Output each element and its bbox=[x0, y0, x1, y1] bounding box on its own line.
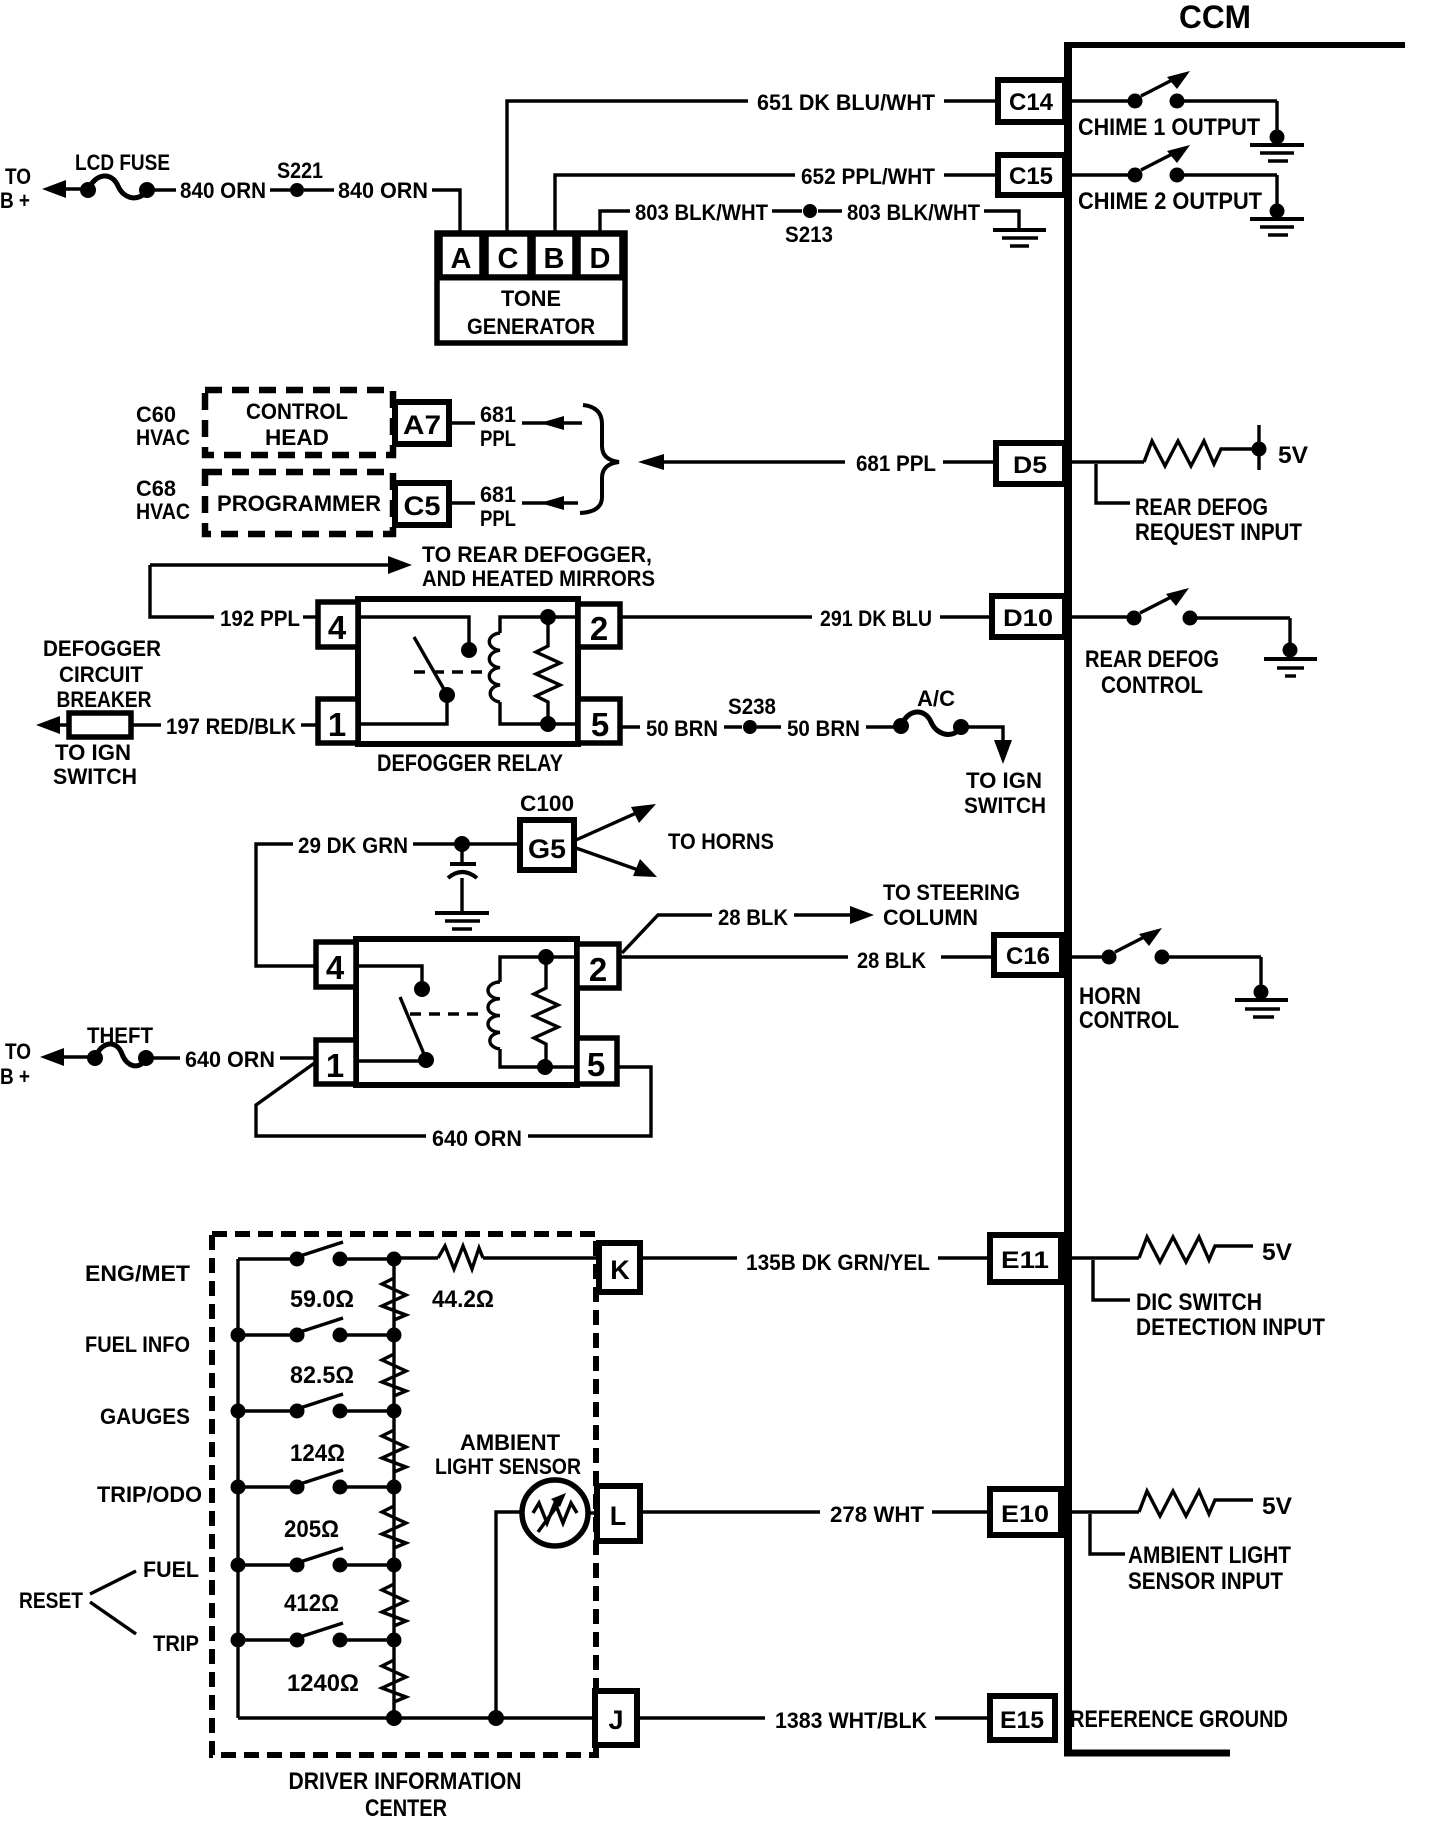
svg-text:DIC SWITCH: DIC SWITCH bbox=[1136, 1289, 1262, 1316]
svg-text:LIGHT SENSOR: LIGHT SENSOR bbox=[435, 1454, 581, 1479]
svg-text:C14: C14 bbox=[1009, 89, 1054, 116]
svg-text:RESET: RESET bbox=[19, 1588, 83, 1613]
svg-text:C15: C15 bbox=[1009, 163, 1053, 190]
svg-text:DETECTION INPUT: DETECTION INPUT bbox=[1136, 1314, 1325, 1341]
node (capacitor tap) bbox=[454, 836, 470, 852]
svg-text:840 ORN: 840 ORN bbox=[180, 178, 266, 203]
svg-text:59.0Ω: 59.0Ω bbox=[290, 1286, 354, 1313]
svg-text:FUEL INFO: FUEL INFO bbox=[85, 1332, 190, 1357]
wire 197 RED/BLK (breaker to relay pin 1) bbox=[131, 714, 318, 739]
svg-text:1383 WHT/BLK: 1383 WHT/BLK bbox=[775, 1708, 927, 1733]
switch TRIP bbox=[231, 1623, 395, 1648]
svg-text:AMBIENT: AMBIENT bbox=[460, 1430, 561, 1455]
svg-text:C16: C16 bbox=[1006, 943, 1050, 970]
switch ENG/MET bbox=[238, 1242, 387, 1267]
relay K2 contact (pin 4 arm) bbox=[356, 966, 434, 1068]
svg-text:5: 5 bbox=[587, 1046, 605, 1083]
svg-text:50 BRN: 50 BRN bbox=[646, 716, 718, 741]
relay K2 actuation dashed link bbox=[410, 1012, 484, 1015]
svg-text:TRIP: TRIP bbox=[153, 1631, 199, 1656]
pin A7 (control head) bbox=[395, 402, 449, 444]
svg-text:291 DK BLU: 291 DK BLU bbox=[820, 606, 932, 631]
node (relay K1 coil top) bbox=[540, 609, 556, 625]
node (chain row 1) bbox=[387, 1252, 402, 1267]
svg-text:DRIVER INFORMATION: DRIVER INFORMATION bbox=[289, 1768, 522, 1795]
connector E15 bbox=[990, 1696, 1055, 1740]
svg-text:AND HEATED MIRRORS: AND HEATED MIRRORS bbox=[422, 566, 655, 591]
relay K2 coil bbox=[488, 957, 577, 1067]
svg-text:FUEL: FUEL bbox=[143, 1557, 199, 1582]
svg-text:681: 681 bbox=[480, 482, 516, 507]
svg-text:TONE: TONE bbox=[501, 286, 561, 311]
brace (681 PPL splice) bbox=[580, 405, 619, 513]
module CCM outline bbox=[1064, 42, 1405, 1753]
svg-text:D10: D10 bbox=[1003, 605, 1053, 632]
capacitor C1 bbox=[448, 844, 477, 911]
wire 28 BLK (branch to steering column) bbox=[622, 880, 1020, 953]
switch GAUGES bbox=[231, 1394, 395, 1419]
svg-text:CONTROL: CONTROL bbox=[1101, 672, 1203, 699]
relay K1 coil bbox=[489, 617, 578, 724]
pin 2 (horn relay) bbox=[577, 944, 619, 988]
wire bus (DIC switch common) bbox=[236, 1259, 239, 1718]
node (chain row 5) bbox=[387, 1558, 402, 1573]
svg-text:E10: E10 bbox=[1001, 1501, 1049, 1528]
resistor 59.0 ohm bbox=[290, 1278, 406, 1320]
svg-text:ENG/MET: ENG/MET bbox=[85, 1261, 191, 1286]
svg-text:TO STEERING: TO STEERING bbox=[883, 880, 1020, 905]
resistor 205 ohm bbox=[284, 1506, 406, 1548]
svg-text:28 BLK: 28 BLK bbox=[718, 905, 788, 930]
svg-text:SENSOR INPUT: SENSOR INPUT bbox=[1128, 1568, 1283, 1595]
wire 135B DK GRN/YEL (K to E11) bbox=[640, 1250, 990, 1275]
svg-text:D5: D5 bbox=[1013, 452, 1047, 479]
connector C15 bbox=[998, 155, 1065, 195]
tone generator U1 bbox=[437, 233, 625, 343]
pin D (tone generator) bbox=[578, 234, 622, 277]
svg-text:DEFOGGER: DEFOGGER bbox=[43, 636, 161, 661]
svg-text:AMBIENT LIGHT: AMBIENT LIGHT bbox=[1128, 1542, 1291, 1569]
label TO IGN SWITCH (breaker) bbox=[53, 740, 137, 789]
svg-text:135B DK GRN/YEL: 135B DK GRN/YEL bbox=[746, 1250, 930, 1275]
svg-text:A/C: A/C bbox=[917, 686, 955, 711]
module PROGRAMMER (dashed) bbox=[205, 472, 393, 534]
svg-text:A7: A7 bbox=[403, 410, 441, 440]
svg-text:640 ORN: 640 ORN bbox=[185, 1047, 275, 1072]
svg-text:205Ω: 205Ω bbox=[284, 1516, 339, 1543]
svg-text:CHIME 2 OUTPUT: CHIME 2 OUTPUT bbox=[1078, 188, 1262, 215]
pin 2 (defogger relay) bbox=[578, 604, 620, 647]
switch REAR DEFOG CONTROL bbox=[1065, 588, 1290, 645]
svg-text:B: B bbox=[544, 243, 565, 275]
wire 840 ORN (S221 to tone generator pin A) bbox=[304, 178, 460, 231]
svg-text:REQUEST INPUT: REQUEST INPUT bbox=[1135, 519, 1302, 546]
svg-text:S213: S213 bbox=[785, 222, 833, 247]
resistor (rear defog request pull-up) bbox=[1068, 441, 1254, 466]
svg-text:A: A bbox=[451, 243, 472, 275]
node (chain to rail) bbox=[386, 1710, 402, 1726]
resistor 82.5 ohm bbox=[290, 1354, 406, 1396]
pin G5 (C100) bbox=[520, 820, 574, 870]
wire 681 PPL (A7) bbox=[449, 402, 582, 451]
svg-text:GENERATOR: GENERATOR bbox=[467, 314, 595, 339]
svg-text:GAUGES: GAUGES bbox=[100, 1404, 190, 1429]
svg-text:S221: S221 bbox=[277, 158, 323, 183]
wire 50 BRN (S238 to A/C fuse) bbox=[757, 716, 895, 741]
label DEFOGGER CIRCUIT BREAKER bbox=[43, 636, 161, 712]
node TO B+ (theft fuse feed) bbox=[0, 1039, 92, 1089]
svg-text:2: 2 bbox=[590, 610, 608, 647]
svg-text:5V: 5V bbox=[1262, 1493, 1292, 1520]
pin 5 (defogger relay) bbox=[578, 699, 620, 743]
node (relay K2 coil top) bbox=[538, 949, 554, 965]
ground (chime 2) bbox=[1250, 204, 1304, 236]
relay K1 DEFOGGER RELAY body bbox=[358, 599, 578, 777]
svg-text:640 ORN: 640 ORN bbox=[432, 1126, 522, 1151]
pin K (DIC) bbox=[599, 1243, 640, 1292]
svg-text:840 ORN: 840 ORN bbox=[338, 178, 428, 203]
wire 29 DK GRN (to C100 G5) bbox=[256, 833, 517, 966]
svg-text:1: 1 bbox=[328, 706, 346, 743]
svg-text:C68: C68 bbox=[136, 476, 176, 501]
svg-text:CONTROL: CONTROL bbox=[1079, 1007, 1179, 1034]
svg-text:REAR DEFOG: REAR DEFOG bbox=[1085, 646, 1219, 673]
svg-text:5V: 5V bbox=[1278, 442, 1308, 469]
svg-text:HORN: HORN bbox=[1079, 983, 1141, 1010]
pin C (tone generator) bbox=[486, 234, 530, 277]
switch CHIME 2 OUTPUT bbox=[1065, 145, 1277, 207]
resistor 44.2 ohm bbox=[401, 1246, 599, 1313]
connector C14 bbox=[998, 80, 1065, 122]
connector D10 bbox=[992, 596, 1065, 637]
svg-text:K: K bbox=[610, 1255, 630, 1285]
svg-text:DEFOGGER RELAY: DEFOGGER RELAY bbox=[377, 750, 563, 777]
label DIC SWITCH DETECTION INPUT bbox=[1093, 1260, 1325, 1341]
connector E10 bbox=[990, 1489, 1061, 1535]
svg-text:4: 4 bbox=[328, 609, 347, 646]
svg-text:CONTROL: CONTROL bbox=[246, 399, 348, 424]
wire 652 PPL/WHT (pin B to C15) bbox=[555, 164, 998, 233]
pin 1 (defogger relay) bbox=[318, 699, 358, 743]
pin C5 (programmer) bbox=[395, 483, 449, 525]
wire chain (DIC resistor ladder) bbox=[392, 1259, 395, 1718]
node (chain row 6) bbox=[387, 1633, 402, 1648]
fuse THEFT bbox=[87, 1023, 154, 1066]
svg-text:1240Ω: 1240Ω bbox=[287, 1670, 359, 1697]
svg-text:TO HORNS: TO HORNS bbox=[668, 829, 774, 854]
label REAR DEFOG CONTROL bbox=[1085, 646, 1219, 699]
svg-text:CIRCUIT: CIRCUIT bbox=[59, 662, 144, 687]
svg-text:PROGRAMMER: PROGRAMMER bbox=[217, 491, 381, 516]
wire 681 PPL (D5 to brace) bbox=[638, 451, 996, 476]
node (chain row 4) bbox=[387, 1480, 402, 1495]
svg-text:SWITCH: SWITCH bbox=[964, 793, 1046, 818]
pin J (DIC) bbox=[595, 1691, 637, 1745]
wire 50 BRN (relay pin 5 to S238) bbox=[620, 716, 742, 741]
switch HORN CONTROL bbox=[1062, 928, 1261, 988]
wire 192 PPL (to defogger relay pin 4) bbox=[150, 565, 318, 631]
ground (803 BLK/WHT) bbox=[993, 230, 1046, 246]
svg-text:C60: C60 bbox=[136, 402, 176, 427]
svg-text:HVAC: HVAC bbox=[136, 425, 190, 450]
svg-text:82.5Ω: 82.5Ω bbox=[290, 1362, 354, 1389]
svg-text:50 BRN: 50 BRN bbox=[787, 716, 860, 741]
node (relay K2 coil bottom) bbox=[537, 1059, 553, 1075]
svg-text:PPL: PPL bbox=[480, 426, 516, 451]
connector C16 bbox=[994, 935, 1062, 975]
pin A (tone generator) bbox=[440, 234, 482, 277]
switch TRIP/ODO bbox=[231, 1470, 395, 1495]
svg-text:SWITCH: SWITCH bbox=[53, 764, 137, 789]
svg-text:TRIP/ODO: TRIP/ODO bbox=[97, 1482, 202, 1507]
svg-text:5: 5 bbox=[591, 706, 609, 743]
svg-text:LCD FUSE: LCD FUSE bbox=[75, 150, 170, 175]
svg-text:CENTER: CENTER bbox=[365, 1795, 447, 1822]
splice S238 bbox=[728, 694, 776, 734]
module DRIVER INFORMATION CENTER (dashed) bbox=[212, 1234, 596, 1822]
pin 5 (horn relay) bbox=[577, 1038, 617, 1084]
svg-text:S238: S238 bbox=[728, 694, 776, 719]
svg-text:J: J bbox=[608, 1705, 623, 1735]
pin 4 (defogger relay) bbox=[318, 602, 358, 647]
svg-text:CCM: CCM bbox=[1179, 0, 1251, 35]
relay K1 contact (pin 4 arm) bbox=[358, 617, 477, 724]
svg-text:G5: G5 bbox=[528, 834, 566, 864]
svg-text:412Ω: 412Ω bbox=[284, 1590, 339, 1617]
svg-text:803 BLK/WHT: 803 BLK/WHT bbox=[847, 200, 981, 225]
svg-text:2: 2 bbox=[589, 951, 607, 988]
node 5V (rear defog request) bbox=[1252, 425, 1309, 470]
switch FUEL INFO bbox=[231, 1318, 395, 1343]
label HORN CONTROL bbox=[1079, 983, 1179, 1034]
resistor 412 ohm bbox=[284, 1584, 406, 1626]
svg-text:4: 4 bbox=[326, 949, 345, 986]
circuit breaker CB1 bbox=[36, 713, 131, 737]
connector E11 bbox=[990, 1235, 1061, 1282]
wire 803 BLK/WHT (S213 to ground) bbox=[818, 200, 1019, 228]
wire to ign switch (A/C fuse) bbox=[964, 727, 1046, 818]
svg-text:681 PPL: 681 PPL bbox=[856, 451, 936, 476]
resistor 124 ohm bbox=[290, 1430, 406, 1472]
wire 1383 WHT/BLK (J to E15) bbox=[637, 1708, 990, 1733]
svg-text:TO REAR DEFOGGER,: TO REAR DEFOGGER, bbox=[422, 542, 652, 567]
resistor (DIC switch pull-up) bbox=[1064, 1237, 1253, 1262]
svg-text:29 DK GRN: 29 DK GRN bbox=[298, 833, 408, 858]
wire 840 ORN (fuse to S221) bbox=[153, 178, 290, 203]
label REAR DEFOG REQUEST INPUT bbox=[1096, 464, 1302, 546]
pin B (tone generator) bbox=[533, 234, 575, 277]
wire 28 BLK (relay pin 2 to C16) bbox=[619, 948, 994, 973]
svg-text:BREAKER: BREAKER bbox=[57, 687, 152, 712]
svg-text:C100: C100 bbox=[520, 791, 574, 816]
svg-text:HVAC: HVAC bbox=[136, 499, 190, 524]
ground (chime 1) bbox=[1250, 130, 1304, 162]
pin 4 (horn relay) bbox=[316, 942, 356, 987]
svg-text:HEAD: HEAD bbox=[265, 425, 329, 450]
resistor (relay K2 internal) bbox=[534, 957, 558, 1067]
svg-text:192 PPL: 192 PPL bbox=[220, 606, 300, 631]
svg-text:REFERENCE GROUND: REFERENCE GROUND bbox=[1070, 1706, 1288, 1733]
node (relay K1 coil bottom) bbox=[540, 716, 556, 732]
svg-text:CHIME 1 OUTPUT: CHIME 1 OUTPUT bbox=[1078, 114, 1260, 141]
svg-text:TO: TO bbox=[5, 1039, 31, 1064]
connector C60 HVAC label bbox=[136, 402, 190, 450]
wire bottom rail (DIC common return) bbox=[238, 1716, 595, 1719]
wire 803 BLK/WHT (pin D to S213) bbox=[600, 200, 802, 233]
wire TO HORNS arrows bbox=[576, 804, 774, 877]
label RESET with pointer lines bbox=[19, 1571, 136, 1634]
svg-text:5V: 5V bbox=[1262, 1239, 1292, 1266]
svg-text:124Ω: 124Ω bbox=[290, 1440, 345, 1467]
node (sensor to rail) bbox=[488, 1710, 504, 1726]
svg-text:44.2Ω: 44.2Ω bbox=[432, 1286, 494, 1313]
svg-text:COLUMN: COLUMN bbox=[883, 905, 978, 930]
ground (horn control) bbox=[1235, 985, 1288, 1018]
pin L (DIC) bbox=[597, 1486, 640, 1541]
svg-text:E15: E15 bbox=[1000, 1707, 1044, 1734]
node (chain row 2) bbox=[387, 1328, 402, 1343]
svg-text:803 BLK/WHT: 803 BLK/WHT bbox=[635, 200, 769, 225]
relay K1 actuation dashed link bbox=[414, 670, 488, 673]
wire 640 ORN (theft fuse to relay pin 1) bbox=[152, 1047, 316, 1072]
relay K2 (horn relay) body bbox=[356, 939, 577, 1085]
svg-text:D: D bbox=[590, 243, 611, 275]
svg-text:B +: B + bbox=[0, 1064, 30, 1089]
svg-text:L: L bbox=[610, 1501, 627, 1531]
svg-text:197 RED/BLK: 197 RED/BLK bbox=[166, 714, 296, 739]
fuse LCD FUSE bbox=[75, 150, 170, 198]
svg-text:C: C bbox=[498, 243, 519, 275]
fuse A/C bbox=[893, 686, 969, 735]
svg-text:TO IGN: TO IGN bbox=[966, 768, 1042, 793]
wire 640 ORN loop (pin 1 to pin 5) bbox=[256, 1062, 651, 1151]
ground (capacitor) bbox=[435, 913, 489, 929]
splice S213 bbox=[785, 204, 833, 247]
svg-text:1: 1 bbox=[326, 1047, 344, 1084]
wire 291 DK BLU (relay pin 2 to D10) bbox=[620, 606, 992, 631]
label AMBIENT LIGHT SENSOR bbox=[435, 1430, 581, 1479]
pin 1 (horn relay) bbox=[316, 1040, 356, 1084]
resistor (ambient light pull-up) bbox=[1064, 1491, 1253, 1516]
wire 681 PPL (C5) bbox=[449, 482, 578, 531]
wire 651 DK BLU/WHT (pin C to C14) bbox=[507, 90, 998, 233]
svg-text:278 WHT: 278 WHT bbox=[830, 1502, 925, 1527]
ground (rear defog control) bbox=[1264, 643, 1317, 677]
resistor (relay K1 internal) bbox=[536, 617, 560, 724]
photoresistor (ambient light sensor) bbox=[496, 1480, 597, 1718]
svg-text:REAR DEFOG: REAR DEFOG bbox=[1135, 494, 1268, 521]
module CONTROL HEAD (dashed) bbox=[205, 390, 393, 455]
node (chain row 3) bbox=[387, 1404, 402, 1419]
svg-text:651 DK BLU/WHT: 651 DK BLU/WHT bbox=[757, 90, 936, 115]
resistor 1240 ohm bbox=[287, 1660, 406, 1702]
wire TO REAR DEFOGGER branch arrow bbox=[150, 542, 655, 591]
wire 278 WHT (L to E10) bbox=[640, 1502, 990, 1527]
connector C68 HVAC label bbox=[136, 476, 190, 524]
splice S221 bbox=[277, 158, 323, 197]
svg-text:TO IGN: TO IGN bbox=[55, 740, 131, 765]
svg-text:C5: C5 bbox=[404, 491, 441, 521]
svg-text:B +: B + bbox=[0, 188, 30, 213]
svg-text:TO: TO bbox=[5, 164, 31, 189]
node TO B+ (LCD fuse feed) bbox=[0, 164, 85, 213]
label AMBIENT LIGHT SENSOR INPUT bbox=[1090, 1514, 1291, 1595]
svg-text:681: 681 bbox=[480, 402, 516, 427]
svg-text:THEFT: THEFT bbox=[87, 1023, 154, 1048]
connector D5 bbox=[996, 443, 1065, 484]
svg-text:E11: E11 bbox=[1001, 1247, 1049, 1274]
svg-text:28 BLK: 28 BLK bbox=[857, 948, 926, 973]
switch FUEL bbox=[231, 1548, 395, 1573]
svg-text:PPL: PPL bbox=[480, 506, 516, 531]
svg-text:652 PPL/WHT: 652 PPL/WHT bbox=[801, 164, 936, 189]
switch CHIME 1 OUTPUT bbox=[1065, 71, 1277, 133]
